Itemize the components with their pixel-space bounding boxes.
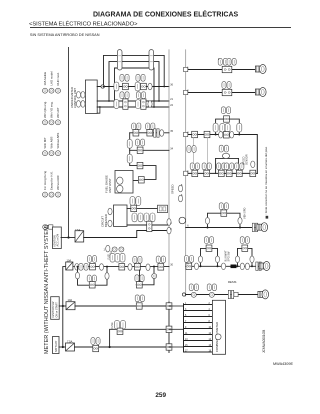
connector oval <box>178 185 182 192</box>
row RD <box>186 203 268 232</box>
reference line B <box>185 50 187 296</box>
plug row P2 <box>184 82 267 97</box>
connector oval <box>167 227 171 234</box>
wire <box>184 334 213 336</box>
connector oval <box>76 92 80 99</box>
inline connector oval <box>115 320 120 329</box>
junction circle on line B <box>179 217 186 224</box>
hook from bus y3 to unit box <box>97 107 100 113</box>
pin id ovals <box>184 256 193 263</box>
connector oval <box>128 264 132 271</box>
wire <box>208 213 241 227</box>
harness plug <box>255 65 266 74</box>
wire <box>186 172 258 174</box>
ignition switch ON-START box <box>51 297 60 320</box>
connector ovals on loops <box>117 50 122 70</box>
riser to mid bus <box>63 267 66 347</box>
svg-text:7.5A: 7.5A <box>75 228 81 232</box>
svg-text:SENSOR: SENSOR <box>246 154 249 165</box>
wire <box>169 305 184 307</box>
connector oval <box>146 264 150 271</box>
pin stub <box>234 292 238 296</box>
connector oval <box>108 220 112 227</box>
junction dot <box>237 265 239 267</box>
wire <box>201 248 218 266</box>
mini loop RB <box>216 145 239 173</box>
pin id ovals <box>135 295 144 302</box>
wire <box>84 231 169 238</box>
svg-text:10A: 10A <box>68 298 73 302</box>
svg-text:With ABS: With ABS <box>50 137 54 149</box>
wire <box>216 157 239 159</box>
connector square <box>137 162 143 168</box>
junction dot <box>153 266 155 268</box>
legend separator wire <box>68 48 70 239</box>
wire <box>59 305 66 307</box>
svg-text:With M/T: With M/T <box>43 137 47 148</box>
pin id ovals <box>91 338 100 345</box>
circled connector code <box>191 292 196 297</box>
circled connector code <box>112 247 117 252</box>
svg-text:SPEED: SPEED <box>171 185 175 194</box>
junction dot <box>251 265 253 267</box>
pin id ovals <box>79 263 88 270</box>
connector square <box>146 123 155 130</box>
combination meter unit box <box>70 80 97 113</box>
svg-text:SPD SW: SPD SW <box>228 251 231 262</box>
wire <box>186 135 258 174</box>
wire <box>74 266 169 268</box>
circled connector code <box>43 88 48 93</box>
connector square <box>114 100 119 109</box>
connector oval <box>194 263 198 270</box>
pin stub <box>184 67 188 71</box>
svg-text:VEH SPD: VEH SPD <box>243 207 247 219</box>
svg-text:FUSE: FUSE <box>111 322 114 329</box>
pin labels on reference lines <box>170 67 189 267</box>
svg-text:<SISTEMA ELÉCTRICO RELACIONADO: <SISTEMA ELÉCTRICO RELACIONADO> <box>29 20 138 27</box>
inline connector bars <box>252 223 257 231</box>
legend group 4 <box>43 171 61 198</box>
battery box <box>53 320 170 353</box>
wire <box>184 316 213 318</box>
connector square <box>93 345 99 351</box>
circled connector code <box>43 225 48 230</box>
battery box <box>53 337 60 354</box>
junction dot <box>200 265 202 267</box>
harness plug <box>259 262 270 271</box>
connector square <box>250 170 256 176</box>
svg-text:With A/T: With A/T <box>56 107 60 118</box>
inline connector oval <box>132 213 137 222</box>
pin id ovals <box>189 284 198 291</box>
legend group 2 <box>43 101 61 125</box>
connector square <box>190 163 199 170</box>
row W1 <box>130 123 169 137</box>
connector square <box>166 326 172 332</box>
junction dot <box>109 346 111 348</box>
unified meter control unit box <box>85 80 97 113</box>
pin id ovals <box>221 107 230 114</box>
bus y2 <box>97 100 169 102</box>
unit box <box>222 66 232 72</box>
svg-text:Without A/C: Without A/C <box>56 175 60 190</box>
connector square <box>202 163 211 170</box>
pin id ovals <box>222 82 231 89</box>
svg-text:RESIS: RESIS <box>228 280 237 284</box>
junction dot <box>62 346 64 348</box>
circuit breaker box <box>114 205 128 226</box>
connector square <box>132 123 141 130</box>
wire <box>184 328 213 330</box>
inline connector oval <box>127 139 132 148</box>
connector square <box>136 282 142 288</box>
reference line M <box>168 50 170 302</box>
pin id ovals <box>219 203 228 210</box>
svg-text:: Este conector no se muestra: : Este conector no se muestra en el arne… <box>264 146 268 214</box>
fuel gauge unit box <box>115 171 133 194</box>
wire <box>75 305 169 307</box>
row RC <box>184 154 258 176</box>
bus2 row RE <box>184 237 270 271</box>
inline connector bars <box>154 129 159 137</box>
ladder rail <box>169 303 212 353</box>
svg-text:10A fusible: 10A fusible <box>43 71 47 85</box>
bus y1 <box>97 86 169 88</box>
wire <box>186 265 262 267</box>
pin id ovals <box>218 58 227 65</box>
wire <box>169 328 184 330</box>
pin id ovals <box>135 275 144 282</box>
pin stub <box>184 171 188 175</box>
wire <box>136 267 154 285</box>
connector oval <box>178 195 182 202</box>
footnote marker <box>266 216 269 219</box>
pin id ovals <box>187 146 196 153</box>
wire <box>127 224 169 226</box>
connector oval <box>205 218 209 225</box>
wire <box>216 119 240 134</box>
inline connector oval <box>220 123 225 132</box>
connector square <box>147 221 152 231</box>
connector oval <box>198 256 202 263</box>
circled connector code <box>43 192 48 197</box>
svg-text:259: 259 <box>155 392 166 399</box>
connector square <box>136 100 141 109</box>
junction dot <box>207 227 209 229</box>
wire <box>130 132 169 134</box>
circled connector code <box>43 120 48 125</box>
connector oval <box>222 153 229 158</box>
connector square <box>131 205 137 211</box>
splice marker <box>231 265 237 269</box>
circled connector code <box>43 151 48 156</box>
svg-text:RHD mod.: RHD mod. <box>56 72 60 85</box>
inline connector bars <box>228 290 233 298</box>
inline connector oval <box>127 154 132 163</box>
pin id ovals <box>87 275 96 282</box>
legend group 5 <box>43 225 53 230</box>
fuse 7.5A battery <box>66 343 75 351</box>
connector oval <box>117 185 123 192</box>
svg-text:For Hong Kong: For Hong Kong <box>43 171 47 190</box>
connector square <box>235 163 244 170</box>
connector oval <box>235 256 239 263</box>
unit box <box>158 205 168 212</box>
junction dot <box>163 86 165 88</box>
svg-text:DIAGRAMA DE CONEXIONES ELÉCTRI: DIAGRAMA DE CONEXIONES ELÉCTRICAS <box>93 10 239 19</box>
connector oval <box>76 101 80 108</box>
wire <box>184 304 213 306</box>
harness plug <box>258 290 269 299</box>
inline connector bars <box>256 262 261 270</box>
svg-text:METER (WITHOUT NISSAN ANTI-THE: METER (WITHOUT NISSAN ANTI-THEFT SYSTEM) <box>44 224 50 354</box>
junction dot <box>99 106 101 108</box>
connector oval <box>75 272 79 279</box>
circuit breaker box <box>101 197 172 252</box>
pin id ovals <box>204 237 213 244</box>
junction circle <box>215 334 221 340</box>
svg-text:JCMWA0001GB: JCMWA0001GB <box>262 330 266 353</box>
junction dot <box>238 134 240 136</box>
wire <box>78 267 108 286</box>
junction dot <box>62 305 64 307</box>
wire <box>59 346 66 348</box>
inline connector oval <box>213 123 218 132</box>
accessory relay box <box>53 227 172 249</box>
svg-text:10A: 10A <box>67 259 72 263</box>
junction dot <box>215 134 217 136</box>
wire loop L1 <box>104 55 165 86</box>
connector oval <box>167 219 171 226</box>
riser <box>127 133 169 183</box>
svg-text:UNIT ASSY: UNIT ASSY <box>108 178 112 193</box>
unit box <box>163 207 166 211</box>
svg-text:7.5A: 7.5A <box>67 339 73 343</box>
inline connector oval <box>130 197 135 206</box>
connector square <box>221 210 227 216</box>
connector oval <box>75 264 79 271</box>
legend group 3 <box>43 133 61 156</box>
connector oval <box>219 131 223 138</box>
connector square <box>117 328 123 334</box>
wire <box>184 340 213 342</box>
junction dot <box>103 86 105 88</box>
plug row P1 <box>184 57 267 74</box>
junction dot <box>239 227 241 229</box>
wire <box>130 149 169 151</box>
ladder pin labels <box>185 303 212 353</box>
connector oval <box>148 101 152 108</box>
junction dot <box>217 265 219 267</box>
svg-text:Without ABS: Without ABS <box>56 133 60 149</box>
under-bus loop U2 <box>135 267 157 288</box>
connector oval <box>221 263 225 270</box>
connector square <box>136 303 142 309</box>
connector oval <box>240 263 244 270</box>
header rule <box>30 27 291 29</box>
wire <box>110 329 169 347</box>
connector square <box>87 256 96 263</box>
pin id ovals <box>219 145 228 152</box>
connector square <box>156 256 165 263</box>
circled connector code <box>152 274 157 279</box>
connector square <box>135 82 140 91</box>
ignition switch ACC box <box>53 227 62 249</box>
connector square <box>114 82 119 91</box>
connector square <box>192 131 198 137</box>
combination meter connector box <box>212 300 225 354</box>
mid bus <box>74 247 169 271</box>
connector square <box>223 132 229 138</box>
svg-text:BREAKER: BREAKER <box>104 214 108 227</box>
row RF <box>182 280 268 299</box>
row RA <box>184 107 258 174</box>
connector square <box>89 282 95 288</box>
connector squares on line M <box>166 303 172 309</box>
gauge unit box <box>105 171 134 194</box>
wire <box>133 180 144 182</box>
svg-text:BATTERY: BATTERY <box>55 340 58 352</box>
pin id ovals <box>240 237 249 244</box>
connector oval <box>251 161 255 168</box>
connector oval <box>160 130 164 137</box>
wire <box>186 294 260 296</box>
connector square <box>186 263 192 269</box>
svg-text:ACC or ON: ACC or ON <box>56 234 59 247</box>
junction dot <box>77 266 79 268</box>
fusible link 7.5A <box>75 231 84 242</box>
wire <box>184 351 213 353</box>
svg-text:ON or START: ON or START <box>55 302 58 318</box>
connector square <box>217 163 226 170</box>
bus y3 <box>97 106 169 108</box>
legend group 1 <box>43 71 61 93</box>
junction dot <box>153 106 155 108</box>
junction dot <box>108 100 110 102</box>
harness plug <box>255 88 266 97</box>
pin stub <box>184 132 188 136</box>
reference line M (lower) <box>168 302 170 353</box>
connector square <box>224 116 230 122</box>
wire <box>186 92 257 94</box>
wire <box>186 227 260 229</box>
wire <box>130 133 156 180</box>
wire <box>61 237 75 239</box>
junction dot <box>106 266 108 268</box>
svg-text:With QG eng.: With QG eng. <box>43 101 47 118</box>
wire <box>169 346 184 348</box>
connector oval <box>108 208 112 215</box>
combination meter connector box <box>212 300 225 354</box>
wire loop L2 <box>109 62 159 101</box>
fuse mid <box>66 262 73 270</box>
fuse 10A ignition <box>66 302 75 310</box>
under-bus loop U1 <box>75 267 109 288</box>
svg-text:SIN SISTEMA ANTIRROBO DE NISSA: SIN SISTEMA ANTIRROBO DE NISSAN <box>30 33 100 37</box>
wire <box>192 138 194 170</box>
connector square <box>206 245 212 251</box>
wire <box>184 310 213 312</box>
title block <box>29 10 291 38</box>
pin stub <box>184 90 188 94</box>
svg-text:Except for H.K.: Except for H.K. <box>50 171 54 190</box>
wire <box>139 270 141 281</box>
unit box <box>159 207 162 211</box>
unit box <box>222 89 232 95</box>
wire <box>238 248 253 266</box>
connector square <box>138 177 144 183</box>
connector square <box>136 139 145 146</box>
wire <box>75 346 170 348</box>
wire loop L3 <box>115 68 155 107</box>
connector square <box>119 264 125 270</box>
wire <box>186 69 257 71</box>
svg-text:With YD eng.: With YD eng. <box>50 101 54 118</box>
svg-text:MWA4309E: MWA4309E <box>273 362 293 366</box>
connector square <box>242 245 248 251</box>
ignition switch box <box>51 295 169 319</box>
junction circle <box>101 85 104 88</box>
pin ovals beside line B <box>171 185 183 202</box>
inline connector oval <box>110 253 115 262</box>
wire <box>206 138 208 170</box>
ladder rail wire <box>183 304 185 352</box>
connector oval <box>99 264 103 271</box>
connector oval <box>117 177 123 184</box>
junction circle <box>182 293 185 296</box>
connector square <box>225 163 234 170</box>
svg-text:LHD model: LHD model <box>50 71 54 85</box>
connector square <box>166 344 172 350</box>
wire <box>184 346 213 348</box>
wire <box>127 207 162 209</box>
harness plug <box>257 223 268 232</box>
junction dot <box>158 100 160 102</box>
wire <box>216 158 239 173</box>
wire <box>184 322 213 324</box>
junction dot <box>67 236 69 238</box>
connector square <box>133 256 142 263</box>
connector oval <box>148 83 152 90</box>
